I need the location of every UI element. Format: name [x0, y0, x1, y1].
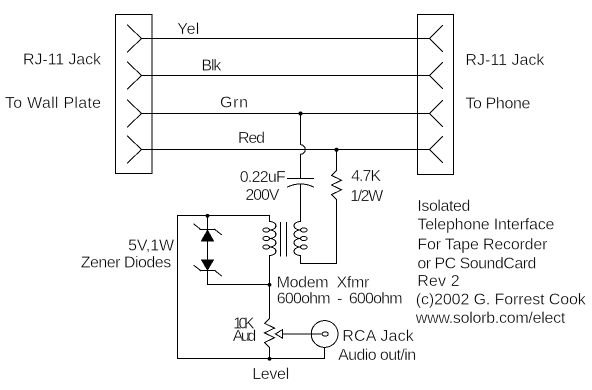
wire Blk [142, 75, 430, 77]
svg-text:Modem Xfmr: Modem Xfmr [277, 275, 370, 292]
svg-text:Blk: Blk [201, 57, 222, 74]
wire Grn tap down to capacitor [300, 114, 302, 145]
svg-text:1/2W: 1/2W [350, 188, 384, 205]
svg-text:4.7K: 4.7K [351, 168, 381, 185]
zener diode D2 bar [194, 265, 222, 275]
wire transformer secondary bottom lead [300, 256, 302, 264]
wire zener branch drop [207, 216, 209, 230]
jack J2 pin chevron 3 [430, 101, 443, 127]
svg-text:RJ-11 Jack: RJ-11 Jack [465, 52, 545, 69]
svg-text:Isolated: Isolated [417, 198, 470, 215]
RCA jack J3 outer circle [311, 321, 338, 348]
wire capacitor to transformer secondary top [300, 184, 302, 222]
zener diode D2 triangle [202, 260, 214, 270]
junction dot zener top [206, 214, 210, 218]
wire Red [142, 149, 430, 151]
wire between zeners [207, 241, 209, 260]
capacitor C1 curved plate [288, 184, 314, 187]
svg-text:To Phone: To Phone [465, 96, 530, 113]
RJ-11 jack J1 body (to wall plate) [116, 15, 153, 174]
svg-text:Yel: Yel [177, 21, 199, 38]
jack J2 pin chevron 4 [430, 137, 443, 163]
wire left rail [177, 216, 179, 359]
transformer T1 primary winding (left) [270, 222, 276, 256]
wire junction to potentiometer top [269, 285, 271, 319]
wire Red tap down to resistor R1 [336, 150, 338, 171]
svg-text:Aud: Aud [233, 328, 257, 345]
svg-text:To Wall Plate: To Wall Plate [5, 95, 101, 112]
svg-text:Red: Red [238, 130, 265, 147]
wire RCA jack ground lead [324, 347, 326, 358]
svg-text:RJ-11 Jack: RJ-11 Jack [23, 52, 102, 69]
wire resistor to transformer secondary bottom [301, 263, 337, 265]
transformer T1 secondary loop knots [300, 228, 307, 232]
resistor R1 4.7K zigzag [332, 171, 342, 200]
jack J1 pin chevron 2 [128, 62, 142, 89]
svg-text:or PC SoundCard: or PC SoundCard [417, 255, 536, 272]
capacitor C1 top plate [288, 178, 314, 180]
junction dot on Red wire [335, 148, 339, 152]
wire Grn [142, 113, 430, 115]
svg-text:Zener Diodes: Zener Diodes [81, 255, 172, 272]
wire transformer primary bottom lead [269, 256, 271, 285]
RJ-11 jack J2 body (to phone) [418, 15, 454, 175]
svg-text:www.solorb.com/elect: www.solorb.com/elect [415, 310, 566, 327]
svg-text:Level: Level [252, 366, 289, 383]
svg-text:For Tape Recorder: For Tape Recorder [417, 236, 548, 253]
potentiometer R2 bottom lead [269, 347, 271, 358]
svg-text:(c)2002 G. Forrest Cook: (c)2002 G. Forrest Cook [416, 292, 587, 309]
svg-text:Audio out/in: Audio out/in [338, 347, 416, 364]
junction dot primary bottom [268, 283, 272, 287]
RCA jack J3 center pin [322, 332, 328, 336]
jack J2 pin chevron 2 [430, 63, 443, 89]
junction dot bottom rail [268, 357, 272, 361]
junction dot on Grn wire [299, 112, 303, 116]
potentiometer wiper arrow [275, 330, 282, 339]
transformer T1 primary loop knots [263, 228, 270, 232]
jack J1 pin chevron 4 [128, 136, 142, 163]
wire Yel [142, 38, 430, 40]
wire resistor R1 bottom lead [336, 200, 338, 264]
jack J1 pin chevron 1 [128, 25, 142, 52]
jack J1 pin chevron 3 [128, 100, 142, 127]
zener diode D1 triangle [202, 230, 214, 241]
zener diode D1 bar [194, 224, 222, 235]
wire top rail to transformer primary top [178, 216, 270, 222]
wire bottom rail [178, 358, 325, 360]
svg-text:0.22uF: 0.22uF [240, 169, 286, 186]
wire zener bottom to primary bottom junction [208, 271, 270, 285]
wire hop over Red [301, 145, 306, 155]
svg-text:Grn: Grn [220, 95, 248, 112]
svg-text:600ohm - 600ohm: 600ohm - 600ohm [277, 291, 403, 308]
svg-text:200V: 200V [245, 187, 279, 204]
svg-text:RCA Jack: RCA Jack [342, 328, 415, 345]
potentiometer R2 10K zigzag [265, 319, 275, 348]
transformer T1 secondary winding (right) [294, 222, 300, 256]
svg-text:Rev 2: Rev 2 [417, 273, 459, 290]
wire wiper to RCA jack [283, 333, 323, 335]
transformer T1 core [281, 223, 287, 257]
jack J2 pin chevron 1 [430, 26, 443, 52]
wire hop to capacitor [300, 154, 302, 178]
svg-text:5V,1W: 5V,1W [128, 237, 175, 254]
svg-text:Telephone Interface: Telephone Interface [417, 217, 554, 234]
